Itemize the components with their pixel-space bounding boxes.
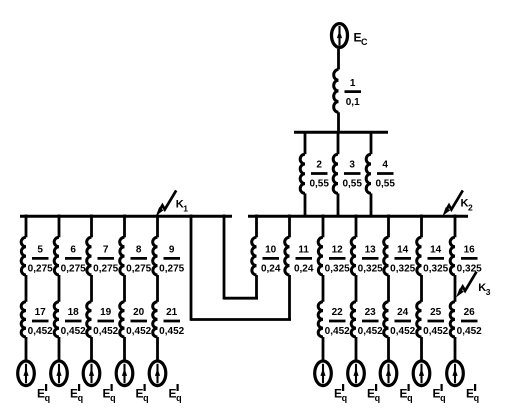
svg-text:16: 16	[464, 245, 476, 256]
wire reactor 20 to source	[123, 337, 126, 360]
label 7/0,275	[93, 245, 118, 275]
reactor 2	[300, 154, 305, 193]
svg-text:q: q	[375, 393, 381, 403]
reactor 13 (x=356)	[351, 237, 356, 275]
fault K3	[456, 272, 476, 298]
wire from EC to reactor 1	[337, 49, 340, 70]
label Eq of branch 6	[70, 384, 83, 403]
wire reactor 17 to source	[25, 337, 28, 360]
svg-text:0,1: 0,1	[346, 97, 360, 108]
label 9/0,275	[159, 245, 184, 275]
svg-text:C: C	[361, 37, 368, 47]
wire reactor 24 to source	[387, 337, 390, 360]
reactor 10	[252, 237, 257, 275]
label 17/0,452	[28, 307, 53, 337]
reactor 4	[366, 154, 371, 193]
svg-text:7: 7	[103, 245, 109, 256]
label K2	[461, 198, 474, 213]
label 12/0,325 (x=323)	[325, 245, 350, 275]
svg-text:0,452: 0,452	[93, 326, 118, 337]
wire reactor 21 to source	[156, 337, 159, 360]
fault K2	[443, 190, 463, 216]
wire reactor 2 to main bus	[304, 193, 307, 216]
label 4/0,55	[375, 160, 395, 190]
svg-text:0,452: 0,452	[390, 326, 415, 337]
svg-text:17: 17	[35, 307, 47, 318]
wire bus to reactor 13 (x=356)	[355, 215, 358, 238]
wire reactor 25 to source	[420, 337, 423, 360]
svg-text:0,452: 0,452	[126, 326, 151, 337]
label Eq of branch 9	[169, 384, 182, 403]
label Eq of branch 5	[37, 384, 50, 403]
upper busbar	[294, 131, 388, 134]
label 16/0,325 (x=455)	[457, 245, 482, 275]
wire reactor 14 to reactor 25	[420, 275, 423, 302]
svg-text:0,452: 0,452	[28, 326, 53, 337]
label 14/0,325 (x=421.5)	[423, 245, 448, 275]
wire reactor 9 to reactor 21	[156, 275, 159, 302]
wire reactor 14 to reactor 24	[387, 275, 390, 302]
svg-text:0,452: 0,452	[159, 326, 184, 337]
svg-text:0,325: 0,325	[390, 264, 415, 275]
reactor 26	[450, 302, 455, 337]
label 21/0,452	[159, 307, 184, 337]
svg-text:0,275: 0,275	[61, 264, 86, 275]
label 14/0,325 (x=388.5)	[390, 245, 415, 275]
reactor 20	[120, 302, 125, 337]
label 19/0,452	[93, 307, 118, 337]
svg-text:2: 2	[316, 160, 322, 171]
tie link riser to left bus (outer U)	[190, 215, 193, 321]
wire upper bus to reactor 4	[370, 133, 373, 154]
svg-text:5: 5	[37, 245, 43, 256]
svg-text:0,452: 0,452	[457, 326, 482, 337]
source Eq below reactor 26	[447, 361, 464, 386]
wire reactor 4 to main bus	[370, 193, 373, 216]
reactor 21	[153, 302, 158, 337]
reactor 17	[21, 302, 26, 337]
svg-text:q: q	[176, 393, 182, 403]
reactor 14 (x=388.5)	[384, 237, 389, 275]
label 25/0,452	[423, 307, 448, 337]
source Eq below reactor 24	[380, 361, 397, 386]
reactor 19	[87, 302, 92, 337]
svg-text:0,452: 0,452	[358, 326, 383, 337]
svg-text:0,325: 0,325	[423, 264, 448, 275]
svg-text:0,452: 0,452	[61, 326, 86, 337]
source Eq below reactor 25	[413, 361, 430, 386]
label 20/0,452	[126, 307, 151, 337]
svg-text:3: 3	[349, 160, 355, 171]
label 5/0,275	[28, 245, 53, 275]
svg-text:0,55: 0,55	[342, 179, 362, 190]
wire bus to reactor 6	[58, 215, 61, 238]
label 8/0,275	[126, 245, 151, 275]
label 6/0,275	[61, 245, 86, 275]
reactor 16 (x=455)	[450, 237, 455, 275]
wire reactor 19 to source	[90, 337, 93, 360]
svg-text:q: q	[143, 393, 149, 403]
svg-text:6: 6	[70, 245, 76, 256]
wire bus to reactor 14 (x=421.5)	[420, 215, 423, 238]
svg-text:3: 3	[486, 287, 491, 297]
svg-text:2: 2	[468, 203, 473, 213]
source Eq below reactor 19	[83, 361, 100, 386]
wire reactor 3 to main bus	[337, 193, 340, 216]
wire reactor 13 to reactor 23	[355, 275, 358, 302]
label 18/0,452	[61, 307, 86, 337]
reactor 11	[285, 237, 290, 275]
wire reactor 16 to reactor 26	[454, 275, 457, 302]
wire upper bus to reactor 3	[337, 133, 340, 154]
svg-text:0,24: 0,24	[294, 264, 314, 275]
wire reactor 11 down	[288, 275, 291, 320]
wire reactor 6 to reactor 18	[58, 275, 61, 302]
label 3/0,55	[342, 160, 362, 190]
label K3	[478, 282, 491, 297]
svg-text:0,24: 0,24	[261, 264, 281, 275]
svg-text:20: 20	[133, 307, 145, 318]
svg-text:22: 22	[332, 307, 344, 318]
svg-text:12: 12	[332, 245, 344, 256]
svg-text:25: 25	[430, 307, 442, 318]
svg-text:q: q	[440, 393, 446, 403]
wire reactor 23 to source	[355, 337, 358, 360]
svg-text:18: 18	[68, 307, 80, 318]
label 24/0,452	[390, 307, 415, 337]
svg-text:0,452: 0,452	[325, 326, 350, 337]
wire reactor 5 to reactor 17	[25, 275, 28, 302]
svg-text:0,275: 0,275	[93, 264, 118, 275]
wire reactor 1 to upper bus	[337, 112, 340, 132]
svg-text:13: 13	[365, 245, 377, 256]
svg-text:q: q	[407, 393, 413, 403]
reactor 23	[351, 302, 356, 337]
label 13/0,325 (x=356)	[358, 245, 383, 275]
svg-text:q: q	[45, 393, 51, 403]
svg-text:0,325: 0,325	[325, 264, 350, 275]
label 26/0,452	[457, 307, 482, 337]
svg-text:14: 14	[430, 245, 442, 256]
reactor 9	[153, 237, 158, 275]
svg-text:4: 4	[382, 160, 388, 171]
svg-text:q: q	[474, 393, 480, 403]
wire bus to reactor 16 (x=455)	[454, 215, 457, 238]
reactor 1	[334, 70, 339, 113]
source Eq below reactor 21	[149, 361, 166, 386]
source EC (system EMF)	[332, 24, 348, 48]
svg-text:19: 19	[100, 307, 112, 318]
wire right bus to reactor 10	[255, 215, 258, 238]
svg-text:0,55: 0,55	[375, 179, 395, 190]
svg-text:11: 11	[298, 245, 309, 256]
svg-text:0,275: 0,275	[159, 264, 184, 275]
label 1/0,1	[345, 78, 362, 108]
wire reactor 18 to source	[58, 337, 61, 360]
svg-text:0,55: 0,55	[309, 179, 329, 190]
reactor 7	[87, 237, 92, 275]
tie link riser to left bus (inner U)	[223, 215, 226, 300]
label K1	[176, 199, 189, 214]
svg-text:0,325: 0,325	[457, 264, 482, 275]
reactor 5	[21, 237, 26, 275]
source Eq below reactor 20	[116, 361, 133, 386]
source Eq below reactor 22	[315, 361, 332, 386]
label Eq of branch 24	[400, 384, 413, 403]
wire reactor 26 to source	[454, 337, 457, 360]
svg-text:0,325: 0,325	[358, 264, 383, 275]
svg-text:24: 24	[397, 307, 409, 318]
left main busbar	[20, 215, 232, 218]
wire bus to reactor 7	[90, 215, 93, 238]
svg-text:23: 23	[365, 307, 377, 318]
label Eq of branch 23	[367, 384, 380, 403]
svg-text:q: q	[78, 393, 84, 403]
label 11/0,24	[294, 245, 314, 275]
label Eq of branch 22	[334, 384, 347, 403]
source Eq below reactor 23	[348, 361, 365, 386]
label Eq of branch 25	[433, 384, 446, 403]
label 22/0,452	[325, 307, 350, 337]
tie link bottom (outer U)	[191, 318, 291, 321]
svg-text:0,275: 0,275	[126, 264, 151, 275]
svg-text:9: 9	[169, 245, 175, 256]
wire bus to reactor 14 (x=388.5)	[387, 215, 390, 238]
label Eq of branch 8	[136, 384, 149, 403]
source Eq below reactor 18	[51, 361, 68, 386]
wire reactor 10 down	[255, 275, 258, 298]
svg-text:26: 26	[464, 307, 476, 318]
right main busbar	[248, 215, 468, 218]
label Eq of branch 26	[466, 384, 479, 403]
reactor 14 (x=421.5)	[417, 237, 422, 275]
wire bus to reactor 8	[123, 215, 126, 238]
reactor 18	[54, 302, 59, 337]
reactor 25	[417, 302, 422, 337]
reactor 8	[120, 237, 125, 275]
wire reactor 22 to source	[322, 337, 325, 360]
wire reactor 7 to reactor 19	[90, 275, 93, 302]
wire reactor 8 to reactor 20	[123, 275, 126, 302]
svg-text:10: 10	[265, 245, 277, 256]
reactor 22	[318, 302, 323, 337]
source Eq below reactor 17	[18, 361, 35, 386]
svg-text:14: 14	[397, 245, 409, 256]
wire upper bus to reactor 2	[304, 133, 307, 154]
reactor 12 (x=323)	[318, 237, 323, 275]
label 2/0,55	[309, 160, 329, 190]
svg-text:q: q	[110, 393, 116, 403]
wire reactor 12 to reactor 22	[322, 275, 325, 302]
svg-text:1: 1	[183, 204, 188, 214]
svg-text:21: 21	[166, 307, 178, 318]
tie link bottom (inner U)	[224, 297, 258, 300]
wire bus to reactor 5	[25, 215, 28, 238]
label 10/0,24	[261, 245, 281, 275]
label 23/0,452	[358, 307, 383, 337]
wire right bus to reactor 11	[288, 215, 291, 238]
reactor 6	[54, 237, 59, 275]
svg-text:q: q	[342, 393, 348, 403]
svg-text:1: 1	[350, 78, 356, 89]
svg-text:0,452: 0,452	[423, 326, 448, 337]
label Eq of branch 7	[103, 384, 116, 403]
reactor 24	[384, 302, 389, 337]
reactor 3	[333, 154, 338, 193]
svg-text:0,275: 0,275	[28, 264, 53, 275]
svg-text:8: 8	[136, 245, 142, 256]
label EC	[354, 31, 369, 48]
wire bus to reactor 9	[156, 215, 159, 238]
wire bus to reactor 12 (x=323)	[322, 215, 325, 238]
fault K1	[156, 190, 176, 216]
